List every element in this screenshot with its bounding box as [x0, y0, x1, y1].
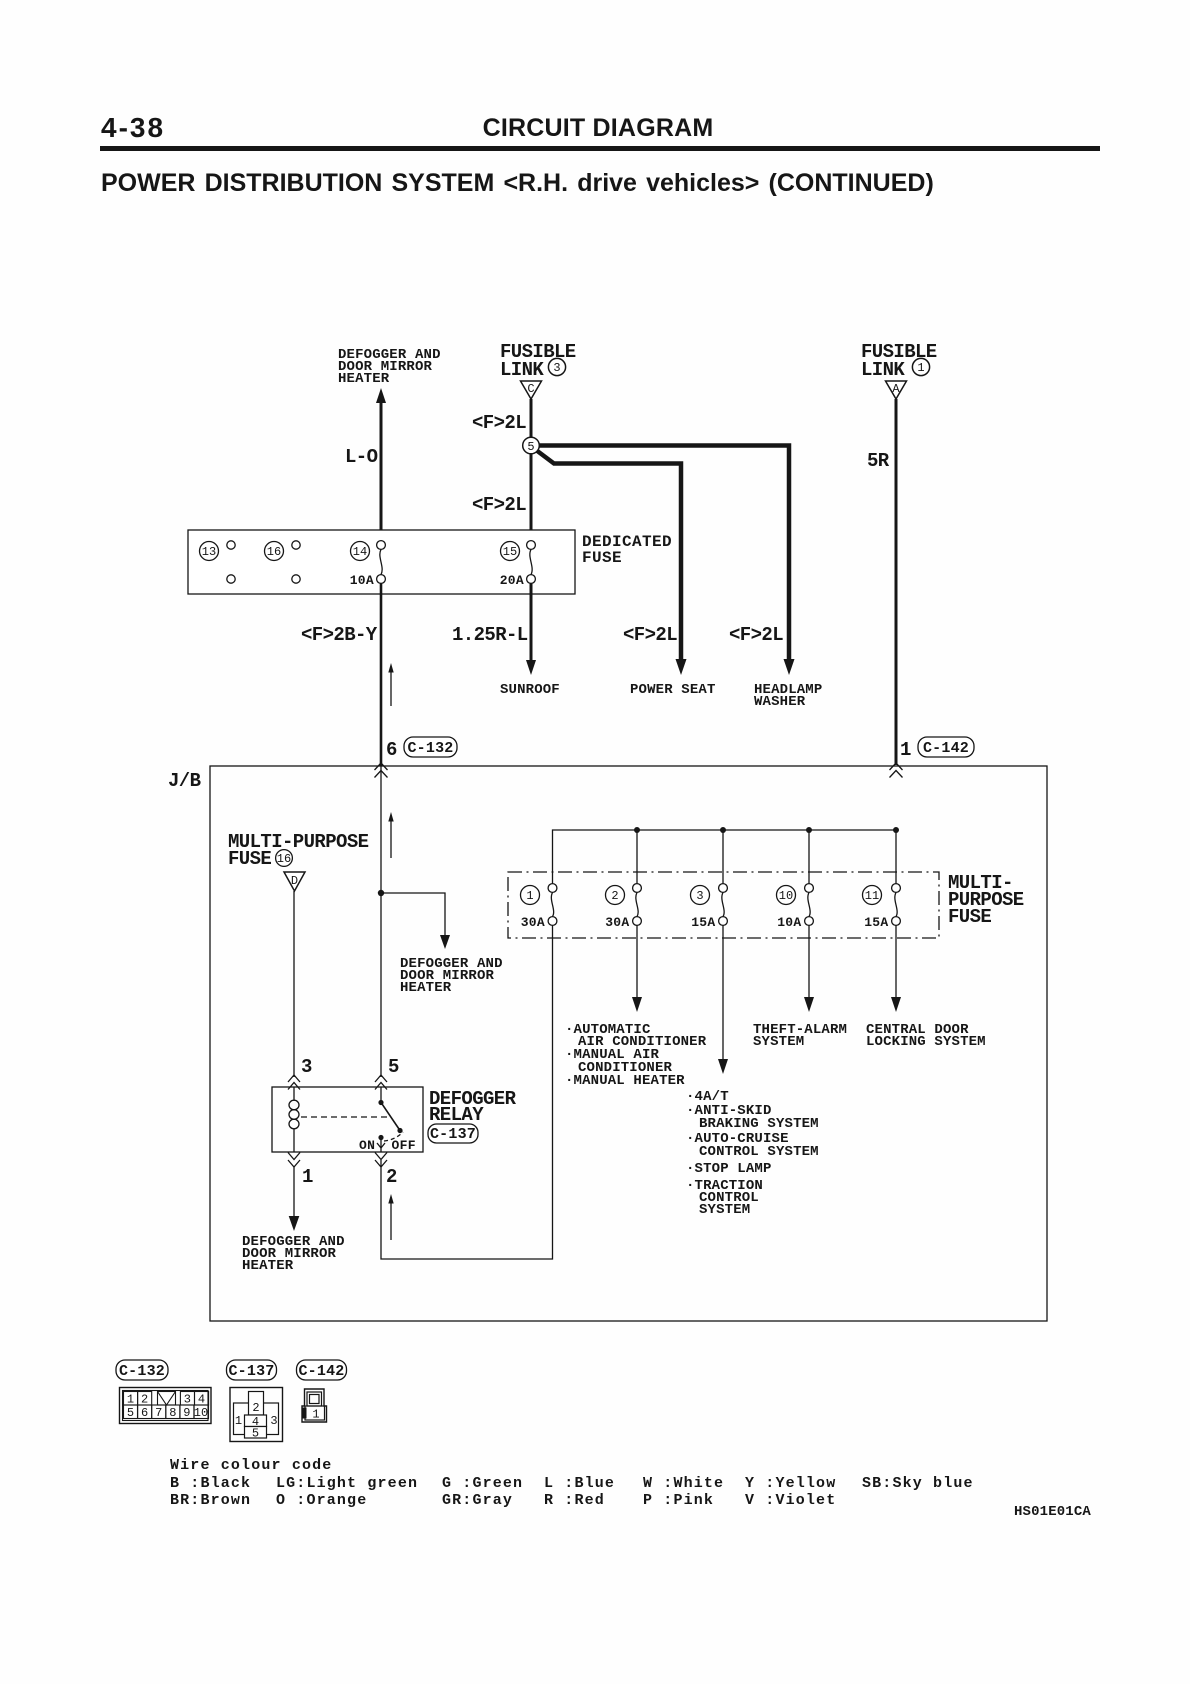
wire fuse14 down to J/B entry [380, 583, 383, 766]
svg-text:30A: 30A [605, 915, 629, 930]
wire colour code legend [170, 1457, 974, 1509]
arrow theft-alarm [804, 997, 814, 1012]
svg-text:L :Blue: L :Blue [544, 1475, 615, 1492]
wire fusible link 1 down to J/B [895, 399, 898, 765]
svg-text:<F>2L: <F>2L [472, 494, 526, 516]
svg-text:CONTROL SYSTEM: CONTROL SYSTEM [699, 1144, 819, 1160]
svg-text:BRAKING SYSTEM: BRAKING SYSTEM [699, 1116, 819, 1132]
connector triangle C [521, 381, 542, 399]
svg-text:1: 1 [302, 1166, 313, 1188]
label DEFOGGER AND DOOR MIRROR HEATER (bottom) [242, 1234, 345, 1274]
label: DEFOGGER AND DOOR MIRROR HEATER (top destination) [338, 347, 441, 387]
chevrons wire into J/B at x=381 [375, 763, 388, 778]
wire branch to defogger heater (inside J/B) [381, 893, 445, 941]
svg-text:2: 2 [386, 1166, 397, 1188]
wire node5 to headlamp washer (thick) [538, 446, 789, 669]
connector C-142 pin view [302, 1389, 327, 1422]
svg-text:11: 11 [865, 889, 879, 903]
stub wire bus to fuse 10 [808, 830, 810, 884]
bus wire from fuse 1 up and across to C-142 feed [553, 830, 897, 884]
wire node5 to power seat (thick) [536, 450, 681, 668]
svg-text:10: 10 [779, 889, 793, 903]
svg-text:A: A [892, 382, 900, 396]
svg-text:C-137: C-137 [228, 1363, 274, 1380]
flow arrow up beside wire [388, 663, 393, 706]
svg-text:LINK: LINK [861, 359, 905, 381]
svg-text:1.25R-L: 1.25R-L [452, 624, 528, 646]
connector label C-137 [428, 1124, 478, 1143]
dedicated fuse 14 10A [350, 541, 386, 588]
junction node on defogger feed [378, 890, 384, 896]
svg-text:3: 3 [270, 1414, 277, 1428]
label FUSIBLE LINK 3 [500, 341, 576, 381]
svg-text:<F>2L: <F>2L [472, 412, 526, 434]
svg-text:D: D [291, 874, 298, 888]
arrow to headlamp washer [784, 659, 795, 675]
svg-text:15: 15 [503, 545, 517, 559]
connector C-137 pin view [230, 1388, 283, 1442]
svg-text:FUSE: FUSE [228, 848, 271, 870]
svg-text:<F>2L: <F>2L [623, 624, 677, 646]
junction dot fuse10 tap [806, 827, 812, 833]
svg-text:HEATER: HEATER [338, 371, 390, 387]
svg-text:9: 9 [183, 1406, 190, 1420]
svg-text:SYSTEM: SYSTEM [699, 1202, 750, 1218]
svg-text:P :Pink: P :Pink [643, 1492, 714, 1509]
relay coil [289, 1087, 299, 1152]
wire L-O feed (thick, x=381 from arrow to dedicated fuse box) [380, 401, 383, 542]
chevrons out of relay pin 1 [288, 1153, 300, 1168]
svg-text:POWER SEAT: POWER SEAT [630, 682, 716, 698]
svg-text:LOCKING SYSTEM: LOCKING SYSTEM [866, 1034, 986, 1050]
C-137 pin numbers [235, 1401, 278, 1441]
svg-text:OFF: OFF [392, 1138, 416, 1153]
stub wire bus to fuse 2 [636, 830, 638, 884]
svg-text:B :Black: B :Black [170, 1475, 251, 1492]
dedicated fuse 15 20A [500, 541, 536, 588]
svg-text:V :Violet: V :Violet [745, 1492, 836, 1509]
svg-text:5: 5 [388, 1056, 399, 1078]
svg-text:10: 10 [194, 1406, 208, 1420]
fuse 2 30A [605, 884, 641, 930]
wire relay pin 1 to defogger heater [293, 1167, 295, 1222]
svg-text:15A: 15A [691, 915, 715, 930]
svg-text:2: 2 [141, 1393, 148, 1407]
svg-text:1: 1 [526, 889, 533, 903]
wire fuse 11 output [895, 925, 897, 1001]
label FUSIBLE LINK 1 [861, 341, 937, 381]
chevrons out of relay pin 2 [375, 1153, 387, 1168]
svg-text:HEATER: HEATER [242, 1258, 294, 1274]
svg-text:7: 7 [155, 1406, 162, 1420]
header rule [100, 146, 1100, 151]
stub wire bus to fuse 11 [895, 830, 897, 884]
svg-text:W :White: W :White [643, 1475, 724, 1492]
label DEFOGGER AND DOOR MIRROR HEATER (middle) [400, 956, 503, 996]
svg-text:SUNROOF: SUNROOF [500, 682, 560, 698]
svg-text:5: 5 [527, 440, 534, 454]
svg-text:10A: 10A [777, 915, 801, 930]
svg-text:<F>2B-Y: <F>2B-Y [301, 624, 378, 646]
relay actuation dashed link [301, 1116, 387, 1118]
connector C-142 title [297, 1360, 347, 1380]
wire fuse 10 output [808, 925, 810, 1001]
svg-text:5: 5 [252, 1427, 259, 1441]
svg-text:Y :Yellow: Y :Yellow [745, 1475, 836, 1492]
svg-text:ON: ON [359, 1138, 375, 1153]
connector C-132 title [116, 1360, 168, 1380]
svg-text:GR:Gray: GR:Gray [442, 1492, 513, 1509]
wire fuse 2 output [636, 925, 638, 1001]
arrow to defogger heater (bottom) [289, 1216, 300, 1231]
svg-text:5: 5 [127, 1406, 134, 1420]
J/B junction block box [210, 766, 1047, 1321]
svg-text:HS01E01CA: HS01E01CA [1014, 1504, 1091, 1520]
defogger relay box [272, 1087, 423, 1152]
svg-text:1: 1 [917, 361, 924, 375]
arrow to defogger (top) [376, 388, 386, 403]
wire main defogger feed inside J/B (x=381) [380, 766, 382, 1077]
wire fuse 3 output [722, 925, 724, 1063]
pin 6 connector C-132 label [386, 737, 457, 761]
label CENTRAL DOOR LOCKING SYSTEM [866, 1022, 986, 1050]
svg-text:10A: 10A [350, 573, 374, 588]
svg-text:14: 14 [353, 545, 367, 559]
connector triangle A [886, 381, 907, 399]
svg-text:C-142: C-142 [923, 740, 969, 757]
svg-text:3: 3 [301, 1056, 312, 1078]
junction dot fuse3 tap [720, 827, 726, 833]
connector triangle D [284, 872, 305, 891]
chevrons into relay pin 5 [375, 1075, 387, 1090]
wire fuse15 to sunroof [530, 583, 533, 668]
svg-text:L-O: L-O [345, 446, 378, 468]
svg-text:R :Red: R :Red [544, 1492, 605, 1509]
svg-text:1: 1 [900, 739, 911, 761]
svg-text:J/B: J/B [168, 770, 201, 792]
svg-text:Wire colour code: Wire colour code [170, 1457, 332, 1474]
label HEADLAMP WASHER [754, 682, 822, 710]
svg-text:·MANUAL HEATER: ·MANUAL HEATER [565, 1073, 685, 1089]
svg-text:4-38: 4-38 [101, 112, 165, 143]
fuse 3 15A [691, 884, 728, 930]
svg-text:G :Green: G :Green [442, 1475, 523, 1492]
label fuse 2 loads [565, 1022, 707, 1089]
arrow fuse 3 loads [718, 1059, 728, 1074]
svg-text:3: 3 [553, 361, 560, 375]
arrow to defogger heater (inside J/B) [440, 935, 450, 949]
svg-text:4: 4 [198, 1393, 205, 1407]
flow arrow up beside pin 2 wire [388, 1194, 393, 1240]
svg-text:2: 2 [611, 889, 618, 903]
svg-text:LINK: LINK [500, 359, 544, 381]
svg-text:2: 2 [252, 1401, 259, 1415]
chevrons into relay pin 3 [288, 1075, 300, 1090]
junction dot at C-142 feed [893, 827, 899, 833]
pin 1 connector C-142 label [900, 737, 974, 761]
fuse 11 15A [863, 884, 901, 930]
wire from triangle C to node 5 [530, 399, 533, 438]
svg-text:1: 1 [312, 1408, 319, 1422]
svg-text:SB:Sky blue: SB:Sky blue [862, 1475, 974, 1492]
multi-purpose fuse dash-dot box [508, 872, 939, 938]
spare fuse 13 [200, 541, 236, 583]
stub wire bus to fuse 3 [722, 830, 724, 884]
svg-text:FUSE: FUSE [582, 549, 622, 567]
svg-text:20A: 20A [500, 573, 524, 588]
svg-text:3: 3 [696, 889, 703, 903]
svg-text:C-132: C-132 [407, 740, 453, 757]
svg-text:1: 1 [127, 1393, 134, 1407]
svg-text:6: 6 [141, 1406, 148, 1420]
svg-text:1: 1 [235, 1414, 242, 1428]
svg-text:RELAY: RELAY [429, 1104, 484, 1126]
svg-text:8: 8 [169, 1406, 176, 1420]
C-132 pin numbers [127, 1393, 208, 1421]
svg-text:POWER DISTRIBUTION SYSTEM <R.H: POWER DISTRIBUTION SYSTEM <R.H. drive ve… [101, 169, 934, 197]
arrow to power seat [676, 659, 687, 675]
node 5 [523, 437, 540, 454]
svg-text:16: 16 [277, 852, 291, 866]
wire fuse 1 output down then left to relay pin 2 [381, 925, 553, 1259]
relay switch [377, 1087, 403, 1152]
svg-text:WASHER: WASHER [754, 694, 806, 710]
arrow to sunroof [526, 660, 536, 675]
label fuse 3 loads [686, 1089, 819, 1218]
svg-text:FUSE: FUSE [948, 906, 991, 928]
svg-text:·STOP LAMP: ·STOP LAMP [686, 1161, 772, 1177]
junction dot fuse2 tap [634, 827, 640, 833]
spare fuse 16 [265, 541, 301, 583]
fuse 10 10A [777, 884, 814, 930]
svg-text:16: 16 [267, 545, 281, 559]
svg-text:SYSTEM: SYSTEM [753, 1034, 804, 1050]
svg-text:C: C [527, 382, 534, 396]
label MULTI-PURPOSE FUSE (right) [948, 872, 1024, 928]
svg-text:5R: 5R [867, 450, 890, 472]
svg-text:C-137: C-137 [430, 1126, 476, 1143]
svg-text:15A: 15A [864, 915, 888, 930]
connector C-132 pin view [120, 1388, 212, 1424]
label DEFOGGER RELAY [429, 1088, 517, 1126]
label MULTI-PURPOSE FUSE 16 (left) [228, 831, 369, 870]
svg-text:13: 13 [202, 545, 216, 559]
connector C-137 title [227, 1360, 277, 1380]
svg-text:HEATER: HEATER [400, 980, 452, 996]
svg-text:3: 3 [184, 1393, 191, 1407]
svg-text:6: 6 [386, 739, 397, 761]
chevrons wire into J/B at x=896 [890, 763, 903, 778]
fuse 1 30A [521, 884, 557, 930]
flow arrow up inside J/B [388, 812, 393, 858]
svg-text:<F>2L: <F>2L [729, 624, 783, 646]
svg-text:C-142: C-142 [298, 1363, 344, 1380]
arrow fuse 2 loads [632, 997, 642, 1012]
svg-text:O :Orange: O :Orange [276, 1492, 367, 1509]
arrow central door locking [891, 997, 901, 1012]
wire node 5 down to fuse 15 [530, 453, 533, 542]
svg-text:CIRCUIT DIAGRAM: CIRCUIT DIAGRAM [483, 114, 714, 142]
wire triangle D to relay pin 3 [293, 891, 295, 1077]
dedicated fuse box [188, 530, 575, 594]
svg-text:LG:Light green: LG:Light green [276, 1475, 418, 1492]
svg-text:30A: 30A [521, 915, 545, 930]
label THEFT-ALARM SYSTEM [753, 1022, 847, 1050]
svg-text:C-132: C-132 [119, 1363, 165, 1380]
svg-text:BR:Brown: BR:Brown [170, 1492, 251, 1509]
